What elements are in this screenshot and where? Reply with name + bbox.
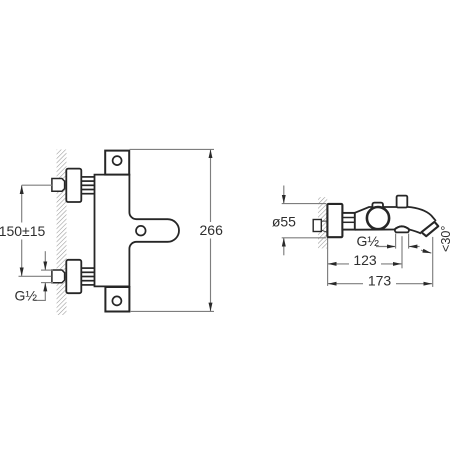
concealed in-wall fitting [313, 220, 321, 232]
underside curve to spout tip [409, 230, 421, 234]
handle cap on top of cartridge [372, 203, 383, 211]
screw hole, bottom flange [112, 296, 121, 305]
dimension 150±15 extension line, top inlet centre [22, 184, 53, 186]
eccentric union body, top inlet [66, 169, 81, 202]
eccentric union body, bottom inlet [66, 260, 81, 293]
svg-text:123: 123 [353, 252, 377, 268]
dimension 266 extension line, bottom [130, 310, 214, 312]
svg-text:150±15: 150±15 [0, 223, 46, 239]
hand-shower outlet bump under body [395, 226, 410, 232]
svg-text:<30°: <30° [439, 226, 450, 252]
dimension 266 line with arrows [210, 149, 212, 222]
mixer body with spout bracket tab (front view silhouette) [95, 175, 180, 287]
wall section hatch (side view) [318, 197, 327, 248]
outlet extension lines [395, 234, 397, 249]
dimension 123 line with arrows [328, 263, 349, 265]
hole in spout bracket tab [136, 226, 146, 236]
wall surface / extension line below escutcheon [327, 237, 329, 286]
cartridge / control knob circle (side view) [367, 207, 389, 229]
dimension 150±15 extension line, bottom inlet centre [19, 275, 52, 277]
dimension ø55 extension lines [282, 203, 327, 205]
G1/2 opposing arrow pointing left at outlet right edge [409, 246, 420, 248]
escutcheon (side view) [327, 204, 342, 237]
union nut, top inlet [52, 179, 65, 192]
top mounting flange [105, 151, 129, 175]
G1/2 thread extension lines, bottom inlet [41, 269, 53, 271]
top curve from diverter to spout tip [407, 207, 436, 221]
threaded connector (side view) [342, 213, 354, 230]
G1/2 leader with arrow pointing up at nut bottom edge [34, 283, 46, 301]
30 deg leader arrow [421, 250, 431, 253]
spout outlet tip cut at 30 deg [421, 222, 438, 236]
dimension 150±15 line with arrows [21, 185, 23, 222]
bottom mounting flange [105, 287, 129, 312]
body cone from connector [355, 207, 397, 213]
wall section hatch (front view) [57, 150, 67, 316]
svg-text:G½: G½ [357, 233, 380, 249]
svg-text:173: 173 [368, 273, 392, 289]
svg-text:ø55: ø55 [272, 213, 296, 229]
G1/2 arrow pointing down at nut top edge [44, 251, 46, 270]
dimension ø55 arrows [283, 186, 285, 204]
dimension 266 extension line, top [130, 148, 215, 150]
union nut, bottom inlet [52, 270, 65, 283]
diverter knob on top [397, 196, 408, 208]
G1/2 leader arrow pointing right at outlet left edge [376, 246, 396, 248]
threaded connector ribs, top inlet [81, 177, 94, 194]
dimension 173 line with arrows [328, 283, 363, 285]
spout tip extension line [432, 237, 434, 287]
screw hole, top flange [113, 156, 122, 165]
svg-text:G½: G½ [15, 288, 38, 304]
threaded connector ribs, bottom inlet [81, 268, 94, 285]
svg-text:266: 266 [200, 222, 224, 238]
